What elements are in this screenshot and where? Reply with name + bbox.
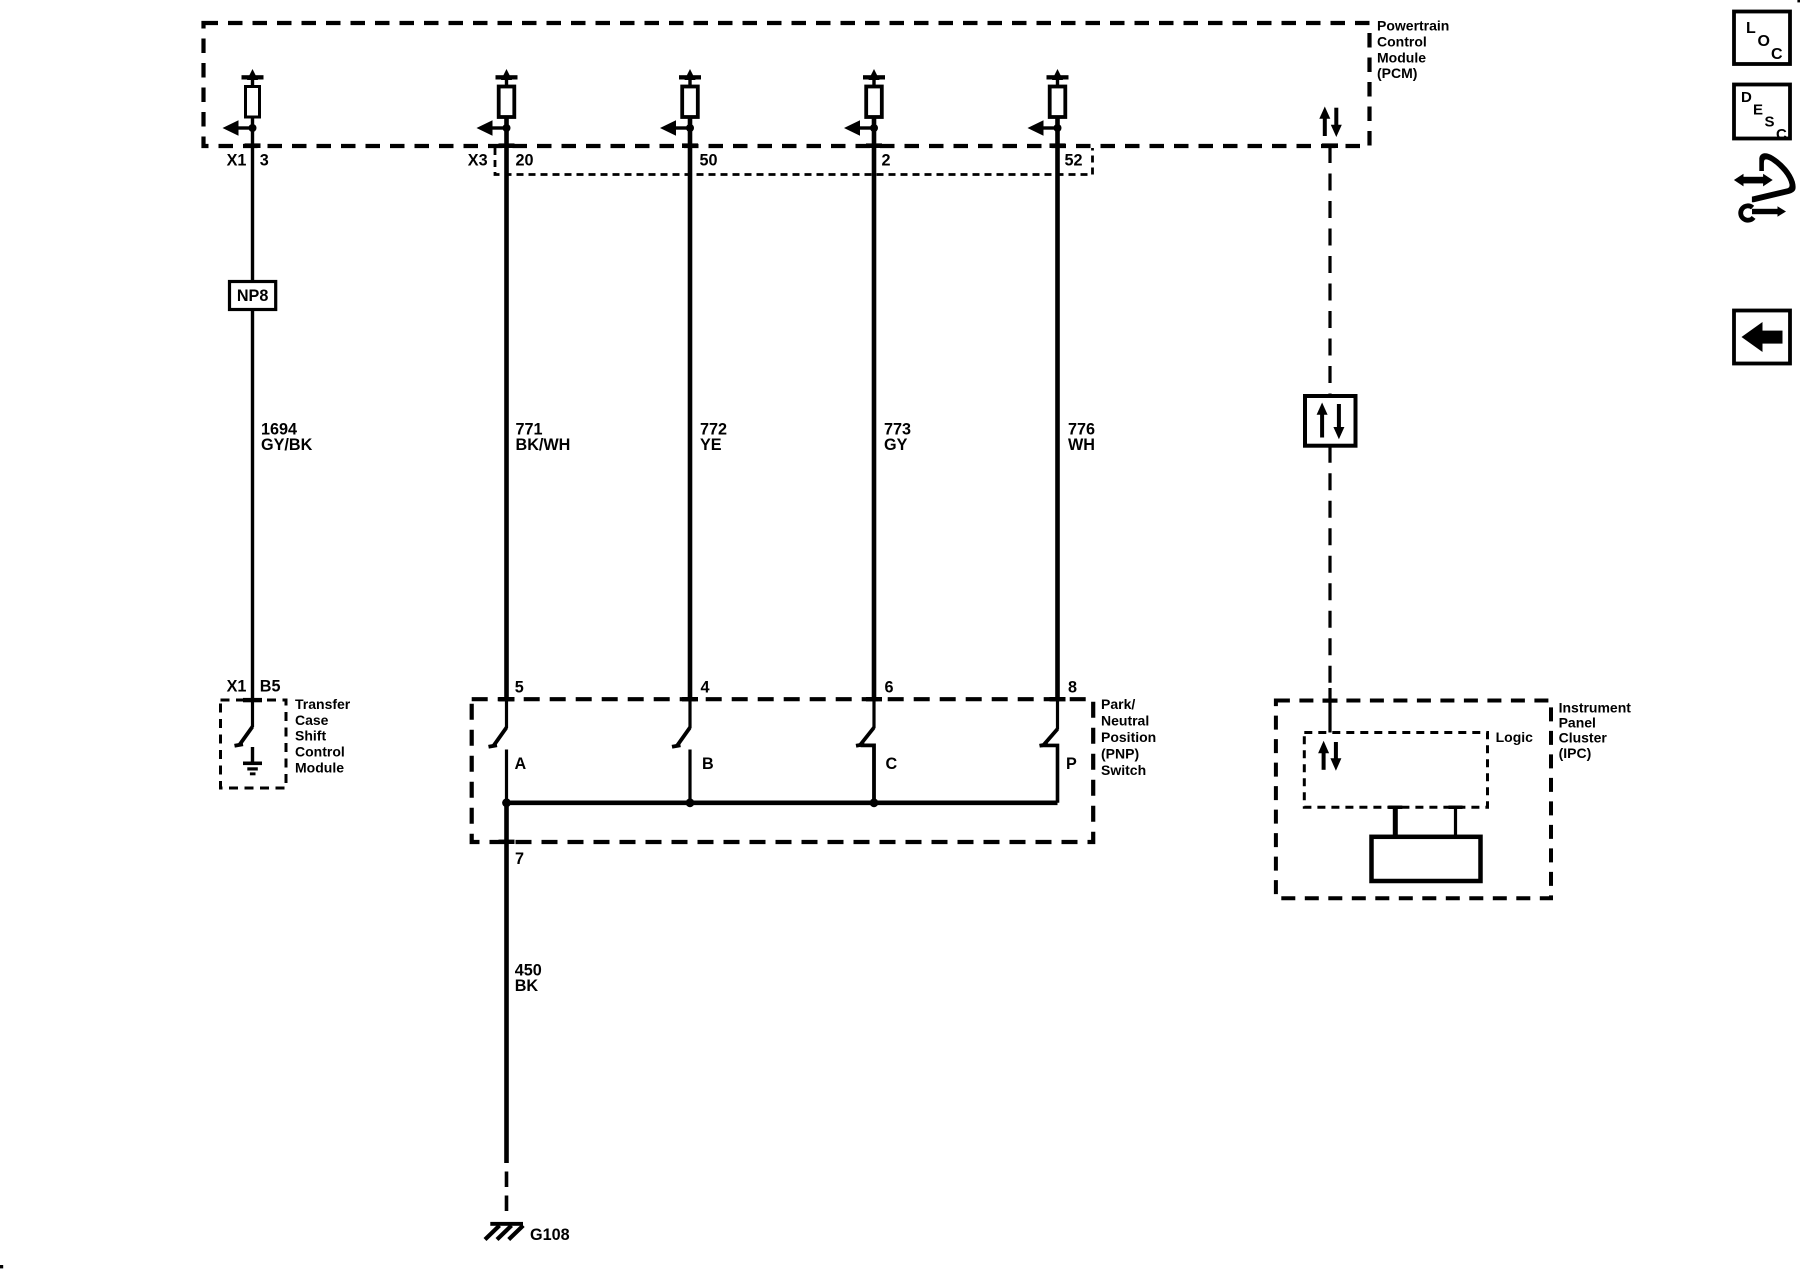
- X3 connector fine-dashed box: [495, 148, 1093, 175]
- svg-text:NP8: NP8: [237, 287, 269, 305]
- IPC name text: [1559, 699, 1632, 761]
- bidirectional data arrows inside PCM: [1319, 107, 1342, 138]
- internal signal arrow (left) on wire 776: [1028, 120, 1058, 135]
- svg-text:7: 7: [515, 850, 524, 868]
- bidirectional arrow box on data line: [1305, 396, 1356, 446]
- option box NP8: [230, 282, 276, 310]
- svg-text:B: B: [702, 755, 714, 773]
- wire: Logic box to gauge assembly (right lead): [1454, 806, 1457, 839]
- page mark top-right: [1797, 0, 1800, 2]
- svg-text:G108: G108: [530, 1226, 570, 1244]
- wire label 771 BK/WH: [516, 420, 571, 454]
- tick: wire 776 crossing PCM boundary: [1050, 143, 1066, 148]
- pin label 52 (PCM connector): [1065, 151, 1083, 169]
- svg-text:C: C: [1771, 46, 1783, 63]
- svg-text:2: 2: [882, 151, 891, 169]
- PCM internal supply symbol on wire 1694: [242, 69, 264, 87]
- switch A: blade: [489, 728, 507, 747]
- svg-text:Case: Case: [295, 712, 329, 728]
- wire: dashed continuation of 450 BK: [505, 1172, 509, 1212]
- switch B: upper contact wire: [688, 700, 691, 728]
- svg-text:Switch: Switch: [1101, 762, 1146, 778]
- svg-text:GY/BK: GY/BK: [261, 436, 313, 454]
- internal signal arrow (left) on wire 1694: [223, 120, 253, 135]
- svg-text:Module: Module: [295, 759, 344, 775]
- switch C: upper contact wire: [872, 700, 875, 728]
- svg-text:Control: Control: [1377, 34, 1427, 50]
- svg-text:3: 3: [260, 151, 269, 169]
- tick: wire 1694 crossing PCM boundary: [245, 143, 261, 148]
- switch blade (Transfer Case module): [235, 727, 253, 746]
- gauge indicator block inside IPC: [1372, 837, 1481, 881]
- switch A: upper contact wire: [505, 700, 508, 728]
- resistor (PCM internal) on wire 773: [866, 87, 882, 118]
- switch P: blade: [1040, 729, 1058, 746]
- svg-text:L: L: [1746, 20, 1756, 37]
- wire: upper switch contact inside Transfer Case module: [251, 700, 254, 727]
- svg-text:BK/WH: BK/WH: [516, 436, 571, 454]
- wire: data line entering IPC to Logic box: [1328, 688, 1331, 733]
- tick: wire 773 crossing PCM boundary: [866, 143, 882, 148]
- node: junction dot on wire 776: [1054, 124, 1062, 132]
- PNP switch name text: [1101, 696, 1156, 778]
- svg-text:20: 20: [516, 151, 534, 169]
- svg-text:Position: Position: [1101, 729, 1156, 745]
- svg-text:X3: X3: [468, 151, 488, 169]
- svg-text:O: O: [1758, 33, 1770, 50]
- svg-text:D: D: [1741, 89, 1752, 106]
- tick: wire 773 crossing PNP boundary: [866, 697, 882, 701]
- node: junction dot at C on bus: [870, 798, 879, 807]
- svg-text:Instrument: Instrument: [1559, 699, 1632, 715]
- svg-text:Park/: Park/: [1101, 696, 1135, 712]
- resistor (PCM internal) on wire 771: [499, 87, 515, 118]
- resistor (PCM internal) on wire 776: [1050, 87, 1066, 118]
- svg-text:C: C: [1776, 126, 1787, 143]
- Logic fine-dashed box inside IPC: [1304, 733, 1487, 808]
- PCM module dashed box: [204, 23, 1370, 146]
- wire: vertical 1694 GY/BK from resistor to NP8 box: [251, 117, 254, 282]
- svg-text:Shift: Shift: [295, 728, 326, 744]
- wire: vertical 773 GY from resistor to PNP switch: [872, 117, 877, 700]
- svg-text:Control: Control: [295, 744, 345, 760]
- svg-text:(IPC): (IPC): [1559, 745, 1592, 761]
- svg-text:S: S: [1765, 114, 1775, 131]
- tick: wire 771 crossing PCM boundary: [499, 143, 515, 148]
- switch B: blade: [672, 728, 690, 747]
- internal signal arrow (left) on wire 773: [844, 120, 874, 135]
- PCM internal supply symbol on wire 772: [679, 69, 701, 87]
- PCM module name text: [1377, 18, 1449, 81]
- svg-text:E: E: [1753, 101, 1763, 118]
- tick: wire 771 crossing PNP boundary: [499, 697, 515, 701]
- ground symbol inside Transfer Case module: [243, 747, 262, 775]
- wire label 776 WH: [1068, 420, 1095, 454]
- svg-text:50: 50: [700, 151, 718, 169]
- wire: dashed data line arrow box to IPC: [1328, 446, 1331, 688]
- tick: wire 450 crossing PNP boundary: [499, 840, 515, 844]
- svg-text:A: A: [515, 755, 527, 773]
- svg-text:P: P: [1066, 755, 1077, 773]
- PCM internal supply symbol on wire 771: [496, 69, 518, 87]
- node: junction dot at B on bus: [686, 798, 695, 807]
- tick: data wire crossing PCM boundary: [1322, 143, 1338, 148]
- IPC dashed box: [1276, 701, 1551, 899]
- node: junction dot on wire 772: [686, 124, 694, 132]
- LOC reference icon box: [1734, 12, 1790, 65]
- wire: Logic box to gauge assembly (left lead): [1393, 806, 1398, 839]
- DESC reference icon box: [1734, 85, 1790, 144]
- wire: vertical 450 BK solid run: [504, 846, 509, 1163]
- switch C: lower contact wire (jog): [861, 745, 875, 802]
- resistor (PCM internal) on wire 1694: [246, 87, 260, 118]
- wire: common bus inside PNP switch: [507, 800, 1058, 805]
- wire label 1694 GY/BK: [261, 420, 313, 454]
- switch A: lower contact wire: [505, 750, 508, 804]
- svg-text:52: 52: [1065, 151, 1083, 169]
- svg-text:C: C: [886, 755, 898, 773]
- node: junction dot on wire 771: [503, 124, 511, 132]
- PNP switch dashed box: [472, 699, 1093, 842]
- wire: vertical 776 WH from resistor to PNP switch: [1055, 117, 1060, 700]
- svg-text:Panel: Panel: [1559, 714, 1596, 730]
- pin label 2 (PCM connector): [882, 151, 891, 169]
- internal signal arrow (left) on wire 772: [660, 120, 690, 135]
- svg-text:8: 8: [1068, 679, 1077, 697]
- tick: wire 776 crossing PNP boundary: [1050, 697, 1066, 701]
- svg-text:X1: X1: [227, 151, 247, 169]
- svg-text:BK: BK: [515, 977, 539, 995]
- back arrow icon box: [1734, 311, 1790, 364]
- node: junction dot on wire 773: [870, 124, 878, 132]
- switch P: lower contact wire (jog): [1042, 745, 1058, 802]
- pin label X3 20 (PCM connector): [468, 151, 534, 169]
- wire: dashed data line PCM to arrow box: [1328, 146, 1331, 396]
- svg-text:4: 4: [701, 679, 710, 697]
- svg-text:Module: Module: [1377, 49, 1426, 65]
- schematic navigation icon (double arrow with hook): [1734, 153, 1796, 220]
- svg-text:5: 5: [515, 679, 524, 697]
- Transfer Case module name text: [295, 696, 351, 775]
- PCM internal supply symbol on wire 776: [1047, 69, 1069, 87]
- tick: right lead crossing Logic boundary: [1449, 806, 1463, 810]
- internal signal arrow (left) on wire 771: [477, 120, 507, 135]
- wire: pin 7 drop from bus through PNP boundary: [504, 803, 509, 846]
- wire label 772 YE: [700, 420, 727, 454]
- node: junction dot at A on bus: [502, 798, 511, 807]
- svg-text:B5: B5: [260, 677, 281, 695]
- switch B: lower contact wire: [688, 750, 691, 804]
- tick: left lead crossing Logic boundary: [1388, 806, 1402, 810]
- svg-text:Neutral: Neutral: [1101, 713, 1149, 729]
- pin label 50 (PCM connector): [700, 151, 718, 169]
- svg-text:YE: YE: [700, 436, 722, 454]
- page mark bottom-left: [0, 1265, 3, 1268]
- svg-text:Cluster: Cluster: [1559, 730, 1608, 746]
- svg-text:(PNP): (PNP): [1101, 746, 1139, 762]
- tick: wire 772 crossing PNP boundary: [682, 697, 698, 701]
- wire: vertical 772 YE from resistor to PNP switch: [688, 117, 693, 700]
- svg-text:(PCM): (PCM): [1377, 65, 1417, 81]
- switch P: upper contact wire: [1056, 700, 1059, 730]
- svg-text:Transfer: Transfer: [295, 696, 351, 712]
- bidirectional data arrows inside Logic box: [1318, 741, 1341, 771]
- Transfer Case module dashed box: [221, 700, 287, 788]
- svg-text:Logic: Logic: [1496, 729, 1534, 745]
- node: junction dot on wire 1694: [249, 124, 257, 132]
- svg-text:Powertrain: Powertrain: [1377, 18, 1449, 34]
- PCM internal supply symbol on wire 773: [863, 69, 885, 87]
- wire label 773 GY: [884, 420, 911, 454]
- switch C: blade: [856, 728, 874, 746]
- svg-text:X1: X1: [227, 677, 247, 695]
- wire: vertical 771 BK/WH from resistor to PNP switch: [504, 117, 509, 700]
- pin label X1 3 (PCM connector): [227, 151, 269, 169]
- ground symbol G108: [485, 1222, 523, 1240]
- wire label 450 BK: [515, 961, 542, 995]
- svg-text:GY: GY: [884, 436, 908, 454]
- pin label X1 B5 (module connector): [227, 677, 281, 695]
- resistor (PCM internal) on wire 772: [682, 87, 698, 118]
- wire: vertical 1694 GY/BK from NP8 to Transfer Case module: [251, 310, 254, 701]
- tick: wire 772 crossing PCM boundary: [682, 143, 698, 148]
- tick: wire 1694 crossing module boundary: [243, 698, 262, 702]
- svg-text:WH: WH: [1068, 436, 1095, 454]
- svg-text:6: 6: [885, 679, 894, 697]
- tick: data wire crossing IPC boundary: [1323, 699, 1338, 703]
